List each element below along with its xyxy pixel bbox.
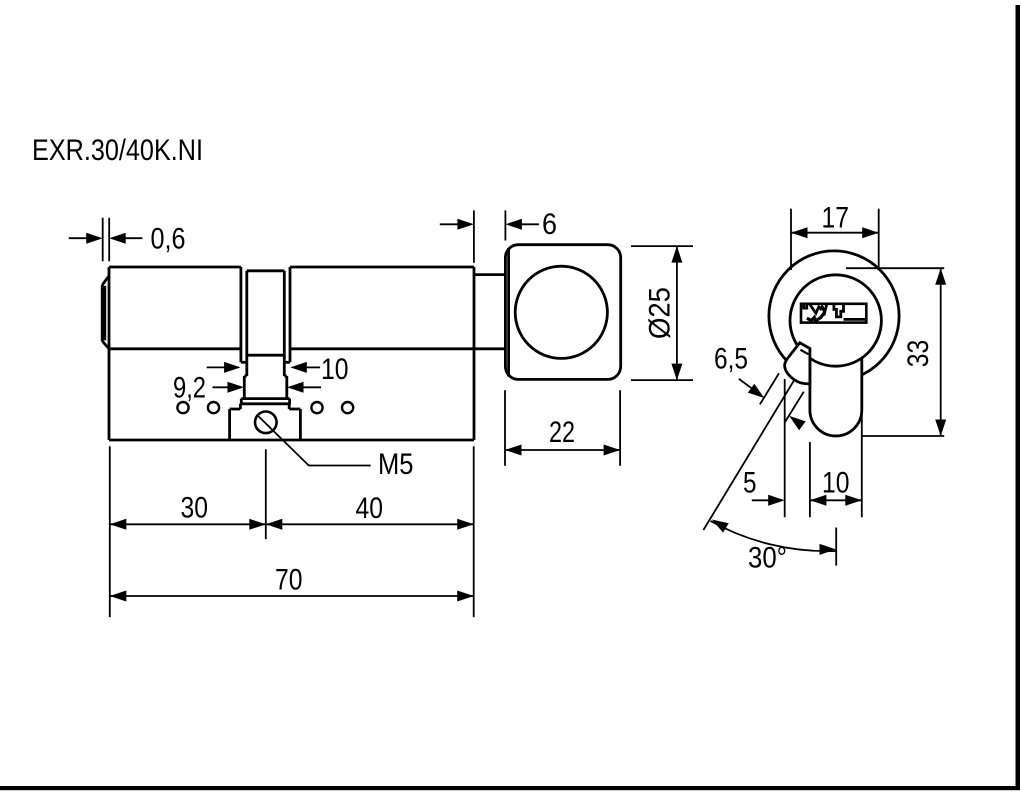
svg-text:EXR.30/40K.NI: EXR.30/40K.NI: [32, 134, 203, 167]
svg-text:33: 33: [902, 340, 935, 368]
svg-text:10: 10: [321, 353, 349, 386]
svg-text:17: 17: [822, 201, 850, 234]
svg-text:22: 22: [549, 416, 575, 449]
svg-text:M5: M5: [378, 448, 414, 481]
svg-text:6: 6: [542, 208, 557, 241]
svg-text:40: 40: [356, 492, 384, 525]
svg-text:70: 70: [275, 564, 303, 597]
svg-text:9,2: 9,2: [173, 372, 206, 405]
svg-text:0,6: 0,6: [151, 222, 186, 255]
svg-text:30: 30: [181, 492, 209, 525]
svg-text:30°: 30°: [748, 542, 787, 575]
svg-text:6,5: 6,5: [714, 342, 748, 375]
svg-text:5: 5: [743, 467, 757, 500]
svg-text:10: 10: [822, 467, 850, 500]
svg-text:Ø25: Ø25: [644, 287, 677, 339]
